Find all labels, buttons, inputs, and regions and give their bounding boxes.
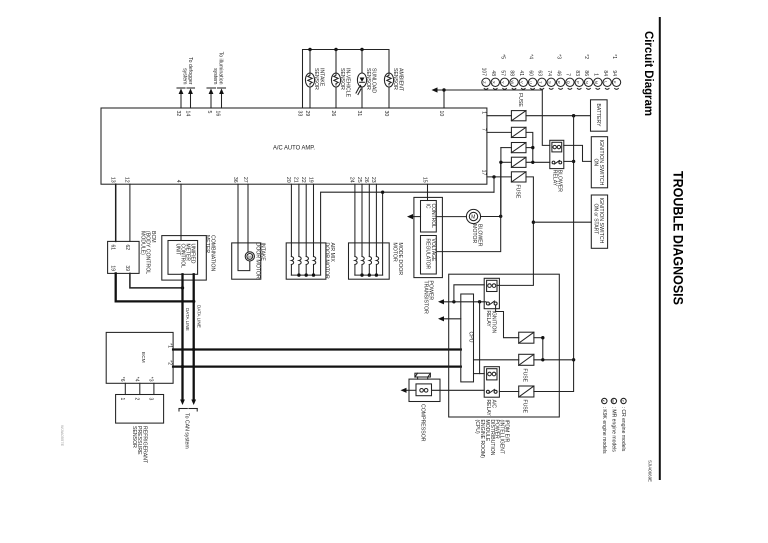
svg-text:REGULATOR: REGULATOR — [425, 239, 431, 270]
wire pin 27 — [247, 184, 249, 243]
svg-text:*5: *5 — [499, 54, 505, 59]
svg-text:M: M — [594, 81, 599, 84]
svg-text:33: 33 — [296, 111, 302, 117]
svg-text:WJIA0557E: WJIA0557E — [60, 425, 65, 446]
wire pin 5 to illumination — [210, 93, 212, 108]
svg-text:13: 13 — [110, 177, 116, 183]
svg-text:SENSOR: SENSOR — [365, 68, 371, 90]
A/C relay — [484, 367, 499, 398]
wire pin 36 — [237, 184, 239, 243]
svg-text:IC: IC — [425, 204, 431, 209]
svg-text:19: 19 — [110, 265, 116, 271]
compressor magnet clutch — [409, 379, 440, 401]
svg-text:M: M — [611, 400, 615, 403]
svg-text:3: 3 — [148, 398, 154, 401]
node sensor bus taps — [308, 48, 311, 51]
wire air mix common — [321, 192, 494, 275]
ground arrow CPU — [441, 318, 461, 320]
svg-text:12: 12 — [124, 177, 130, 183]
svg-text:TRANSISTOR: TRANSISTOR — [422, 281, 428, 315]
svg-text:27: 27 — [242, 177, 248, 183]
svg-text:19: 19 — [307, 177, 313, 183]
svg-text:V: V — [519, 81, 524, 84]
svg-text:UNIT: UNIT — [174, 244, 180, 256]
svg-text:FUSE: FUSE — [521, 400, 527, 414]
wire ign relay out to fuse FA — [496, 305, 519, 338]
svg-text:MOTOR: MOTOR — [392, 243, 398, 262]
svg-text:R: R — [557, 81, 562, 84]
ignition relay — [484, 278, 499, 308]
svg-text:39: 39 — [124, 265, 130, 271]
svg-text:DATA LINE: DATA LINE — [197, 305, 202, 328]
svg-text:DOOR MOTOR: DOOR MOTOR — [254, 243, 260, 279]
wire pin17 to fuse F5 — [487, 176, 512, 178]
fuse F2 — [511, 127, 526, 137]
wire pin7 to fuse F2 — [487, 131, 512, 133]
sensor supply bus — [303, 50, 390, 109]
svg-text:(CPU): (CPU) — [474, 420, 480, 434]
combination meter — [162, 236, 207, 281]
svg-text:30: 30 — [383, 111, 389, 117]
svg-text:SENSOR: SENSOR — [313, 68, 319, 90]
intake door motor M2 — [232, 243, 261, 279]
svg-text:1: 1 — [481, 111, 487, 114]
svg-text:20: 20 — [285, 177, 291, 183]
wire ign ON or START — [533, 221, 591, 223]
svg-text:*1: *1 — [611, 54, 617, 59]
wire pin 16 to illumination — [221, 93, 223, 108]
svg-text:7: 7 — [481, 128, 487, 131]
svg-text:25: 25 — [356, 177, 362, 183]
svg-text:48: 48 — [490, 70, 496, 76]
fuse F5 — [511, 172, 526, 182]
svg-text:SENSOR: SENSOR — [131, 426, 137, 448]
svg-text:14: 14 — [184, 111, 190, 117]
wire FB to CPU — [474, 359, 519, 361]
wire F3/F4 left tie to blower feed — [500, 148, 502, 217]
svg-text:29: 29 — [304, 111, 310, 117]
svg-text:RELAY: RELAY — [551, 170, 557, 187]
svg-text:94: 94 — [611, 70, 617, 76]
svg-text:84: 84 — [602, 70, 608, 76]
svg-text:DATA LINE: DATA LINE — [185, 308, 190, 331]
wire battery main vertical — [534, 116, 574, 392]
CPU — [461, 294, 474, 382]
data line 2 — [193, 274, 195, 400]
wire CPU to AC relay coil — [474, 373, 485, 375]
svg-text:23: 23 — [370, 177, 376, 183]
svg-text:86: 86 — [583, 70, 589, 76]
svg-text:ON or START: ON or START — [593, 204, 599, 235]
intake sensor — [309, 50, 311, 74]
fuse FA — [519, 332, 534, 343]
svg-text:*4: *4 — [527, 54, 533, 59]
svg-text:COMPRESSOR: COMPRESSOR — [420, 404, 426, 442]
wire coil branch — [454, 285, 484, 302]
svg-text:15: 15 — [421, 177, 427, 183]
svg-text:: K9K engine models: : K9K engine models — [601, 407, 607, 454]
svg-text:2: 2 — [134, 398, 140, 401]
wire pin 10 ground/feed — [443, 90, 445, 108]
svg-text:*2: *2 — [166, 360, 172, 365]
thermal protector — [415, 373, 431, 377]
svg-text:P: P — [575, 81, 580, 84]
svg-text:ON: ON — [593, 159, 599, 167]
svg-text:*4: *4 — [134, 377, 140, 382]
svg-text:61: 61 — [110, 245, 116, 251]
fusible link row — [482, 78, 490, 86]
air mix door motor M3 — [290, 184, 292, 256]
defogger bracket — [177, 87, 185, 89]
fuse FB — [519, 354, 534, 365]
sunload sensor — [361, 50, 363, 74]
svg-text:K: K — [613, 81, 618, 84]
svg-text:107: 107 — [481, 68, 487, 77]
fuse F1 — [511, 111, 526, 121]
svg-text:1: 1 — [593, 73, 599, 76]
in-vehicle sensor — [335, 50, 337, 74]
fuse FC — [519, 386, 534, 397]
svg-text:SENSOR: SENSOR — [392, 68, 398, 90]
svg-text:32: 32 — [175, 111, 181, 117]
wire F2 F3 F4 tie — [526, 132, 533, 162]
wire BCM 39 data — [130, 273, 183, 288]
power transistor unit — [414, 197, 443, 277]
svg-text:22: 22 — [300, 177, 306, 183]
svg-text:21: 21 — [293, 177, 299, 183]
svg-text:1: 1 — [119, 398, 125, 401]
battery — [591, 100, 608, 131]
wire FA FB tie — [534, 337, 543, 339]
wire F5 to ignition relay coil — [498, 177, 533, 286]
svg-text:SJIA0669E: SJIA0669E — [648, 460, 653, 482]
svg-text:36: 36 — [232, 177, 238, 183]
svg-text:10: 10 — [438, 111, 444, 117]
svg-text:62: 62 — [124, 245, 130, 251]
svg-text:Q: Q — [566, 81, 571, 84]
wire mode common — [382, 192, 384, 275]
svg-text:X: X — [491, 81, 496, 84]
svg-text:60: 60 — [527, 70, 533, 76]
ignition switch ON — [591, 137, 607, 188]
svg-text:ECM: ECM — [140, 352, 146, 363]
svg-text:17: 17 — [481, 170, 487, 176]
svg-text:57: 57 — [499, 70, 505, 76]
wire voltage regulator feed — [437, 162, 500, 251]
svg-text:74: 74 — [546, 70, 552, 76]
svg-text:DOOR MOTOR: DOOR MOTOR — [324, 243, 330, 279]
ground arrow control IC — [410, 216, 421, 218]
svg-text:4: 4 — [175, 180, 181, 183]
svg-text:: CR engine models: : CR engine models — [620, 407, 626, 452]
wire AC relay to fuse FC — [499, 391, 518, 393]
svg-text:S: S — [547, 81, 552, 84]
refrigerant pressure sensor — [116, 395, 164, 424]
heading rule — [659, 17, 661, 480]
svg-text:41: 41 — [518, 70, 524, 76]
svg-text:26: 26 — [330, 111, 336, 117]
wire pin 32 to defogger — [180, 93, 182, 108]
svg-text:system: system — [212, 68, 218, 84]
svg-text:88: 88 — [509, 70, 515, 76]
wire relay contact to battery line — [564, 160, 574, 162]
wire F1 to battery — [526, 115, 591, 117]
wire pin12 to BCM — [129, 184, 131, 241]
svg-text:*1: *1 — [166, 343, 172, 348]
svg-text:N: N — [585, 81, 590, 84]
ECM — [106, 332, 173, 383]
ignition switch ON or START — [591, 195, 607, 248]
A/C auto amplifier U1 — [101, 108, 487, 184]
wire compressor gnd — [404, 389, 417, 391]
svg-text:C: C — [620, 400, 624, 403]
ambient sensor — [388, 87, 390, 108]
svg-text:RELAY: RELAY — [485, 311, 491, 328]
wire pin13 to BCM — [115, 184, 117, 241]
svg-text:83: 83 — [574, 70, 580, 76]
svg-text:16: 16 — [214, 111, 220, 117]
wire ECM *2 CAN-L — [173, 365, 461, 367]
svg-text:FUSE: FUSE — [521, 369, 527, 383]
svg-text:5: 5 — [206, 111, 212, 114]
svg-text:63: 63 — [537, 70, 543, 76]
svg-text:Circuit Diagram: Circuit Diagram — [642, 31, 654, 116]
svg-text:M: M — [248, 254, 251, 259]
wire pin17 branch to motor commons — [493, 177, 495, 192]
IPDM E/R box — [449, 274, 560, 417]
blower relay — [550, 140, 564, 168]
svg-text:system: system — [182, 68, 188, 84]
svg-text:SENSOR: SENSOR — [339, 68, 345, 90]
fuse F4 — [501, 161, 512, 163]
svg-text:*6: *6 — [119, 377, 125, 382]
svg-text:*3: *3 — [148, 377, 154, 382]
CAN bracket — [179, 408, 187, 410]
svg-text:U: U — [529, 81, 534, 84]
svg-text:BATTERY: BATTERY — [595, 104, 601, 128]
svg-text:*3: *3 — [555, 54, 561, 59]
wire AC relay to compressor — [432, 389, 485, 391]
svg-text:METER: METER — [204, 235, 210, 253]
svg-text:W: W — [510, 80, 515, 84]
svg-text:: MR engine models: : MR engine models — [610, 407, 616, 453]
wire BCM 19 data — [116, 273, 194, 301]
svg-text:31: 31 — [356, 111, 362, 117]
mode door motor M4 — [354, 184, 356, 256]
wire control IC to blower motor — [436, 216, 466, 218]
wire pin 14 to defogger — [190, 93, 192, 108]
fuse F3 — [501, 147, 512, 149]
svg-text:46: 46 — [555, 70, 561, 76]
BCM body control module — [108, 241, 140, 273]
wire ECM *1 CAN-H — [173, 348, 461, 350]
wire pin1 to fuse F1 — [487, 115, 512, 117]
svg-text:7: 7 — [565, 73, 571, 76]
wire relay coil to ignition ON — [564, 145, 592, 161]
svg-text:*2: *2 — [583, 54, 589, 59]
wire blower motor to fuse — [481, 216, 501, 218]
blower motor M1 — [466, 209, 480, 223]
svg-text:CPU: CPU — [468, 332, 474, 343]
svg-text:MOTOR: MOTOR — [471, 224, 477, 243]
svg-text:26: 26 — [363, 177, 369, 183]
svg-text:A/C AUTO AMP.: A/C AUTO AMP. — [273, 146, 315, 152]
svg-text:24: 24 — [349, 177, 355, 183]
data line 1 — [181, 274, 183, 400]
illumination bracket — [207, 87, 216, 89]
wire pin 15 — [427, 184, 429, 200]
wire pin 4 to meter — [180, 184, 182, 240]
svg-text:FUSE: FUSE — [515, 185, 521, 199]
wire cpu branch — [479, 302, 481, 374]
svg-text:MODULE): MODULE) — [139, 231, 145, 255]
legend engine models — [621, 398, 626, 403]
svg-text:M: M — [471, 215, 475, 221]
svg-text:Y: Y — [501, 81, 506, 84]
svg-text:TROUBLE DIAGNOSIS: TROUBLE DIAGNOSIS — [671, 171, 687, 305]
svg-text:To CAN system: To CAN system — [183, 413, 189, 449]
wire ign relay coil gnd — [441, 301, 486, 303]
svg-text:FUSE: FUSE — [517, 93, 523, 107]
svg-text:RELAY: RELAY — [485, 400, 491, 417]
